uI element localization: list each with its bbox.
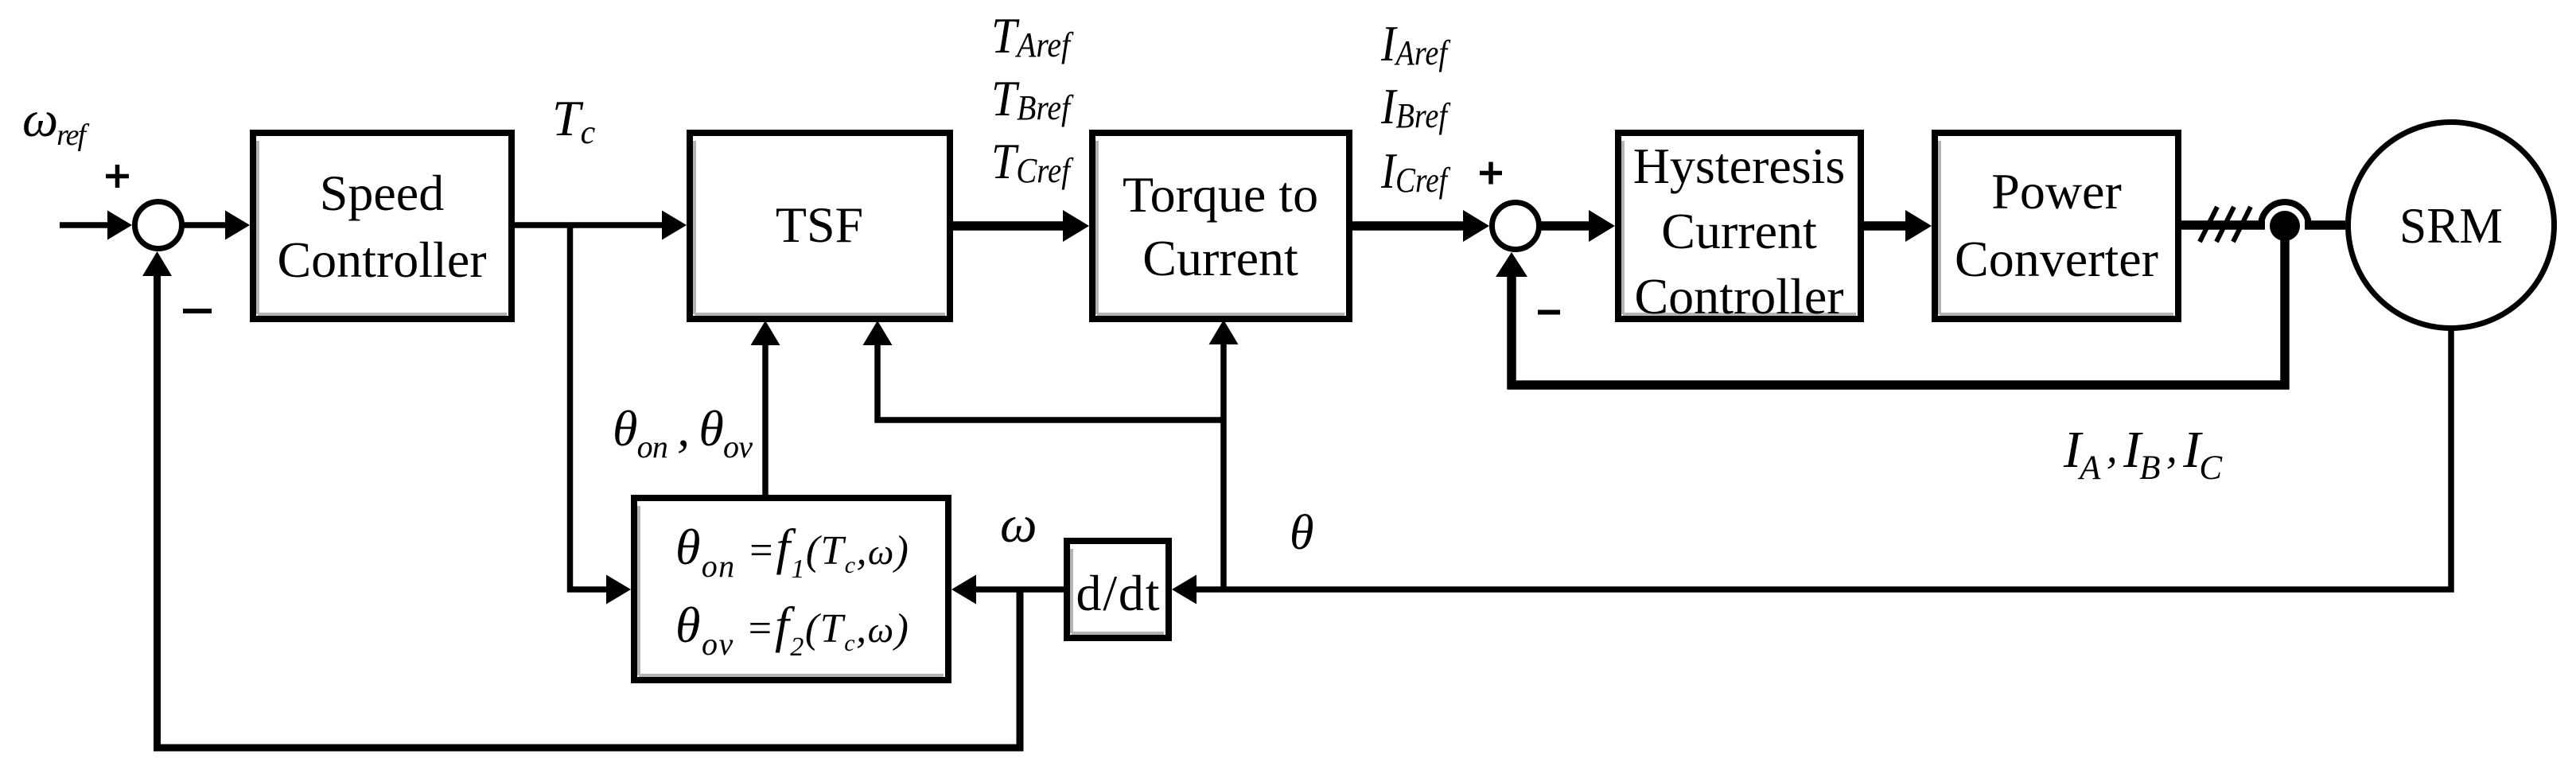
svg-text:Converter: Converter (1955, 231, 2158, 287)
svg-text:SRM: SRM (2399, 197, 2503, 254)
svg-text:Power: Power (1991, 163, 2122, 220)
svg-text:Speed: Speed (320, 165, 444, 221)
svg-text:d/dt: d/dt (1076, 565, 1160, 621)
svg-text:Current: Current (1661, 203, 1817, 259)
svg-text:TSF: TSF (776, 196, 863, 253)
svg-text:Hysteresis: Hysteresis (1633, 138, 1846, 194)
svg-text:ω: ω (1000, 496, 1037, 554)
svg-text:Torque to: Torque to (1123, 166, 1318, 223)
svg-text:Current: Current (1142, 230, 1298, 286)
svg-text:Controller: Controller (277, 231, 486, 288)
svg-text:θ: θ (1290, 506, 1313, 560)
svg-text:Controller: Controller (1634, 268, 1843, 325)
